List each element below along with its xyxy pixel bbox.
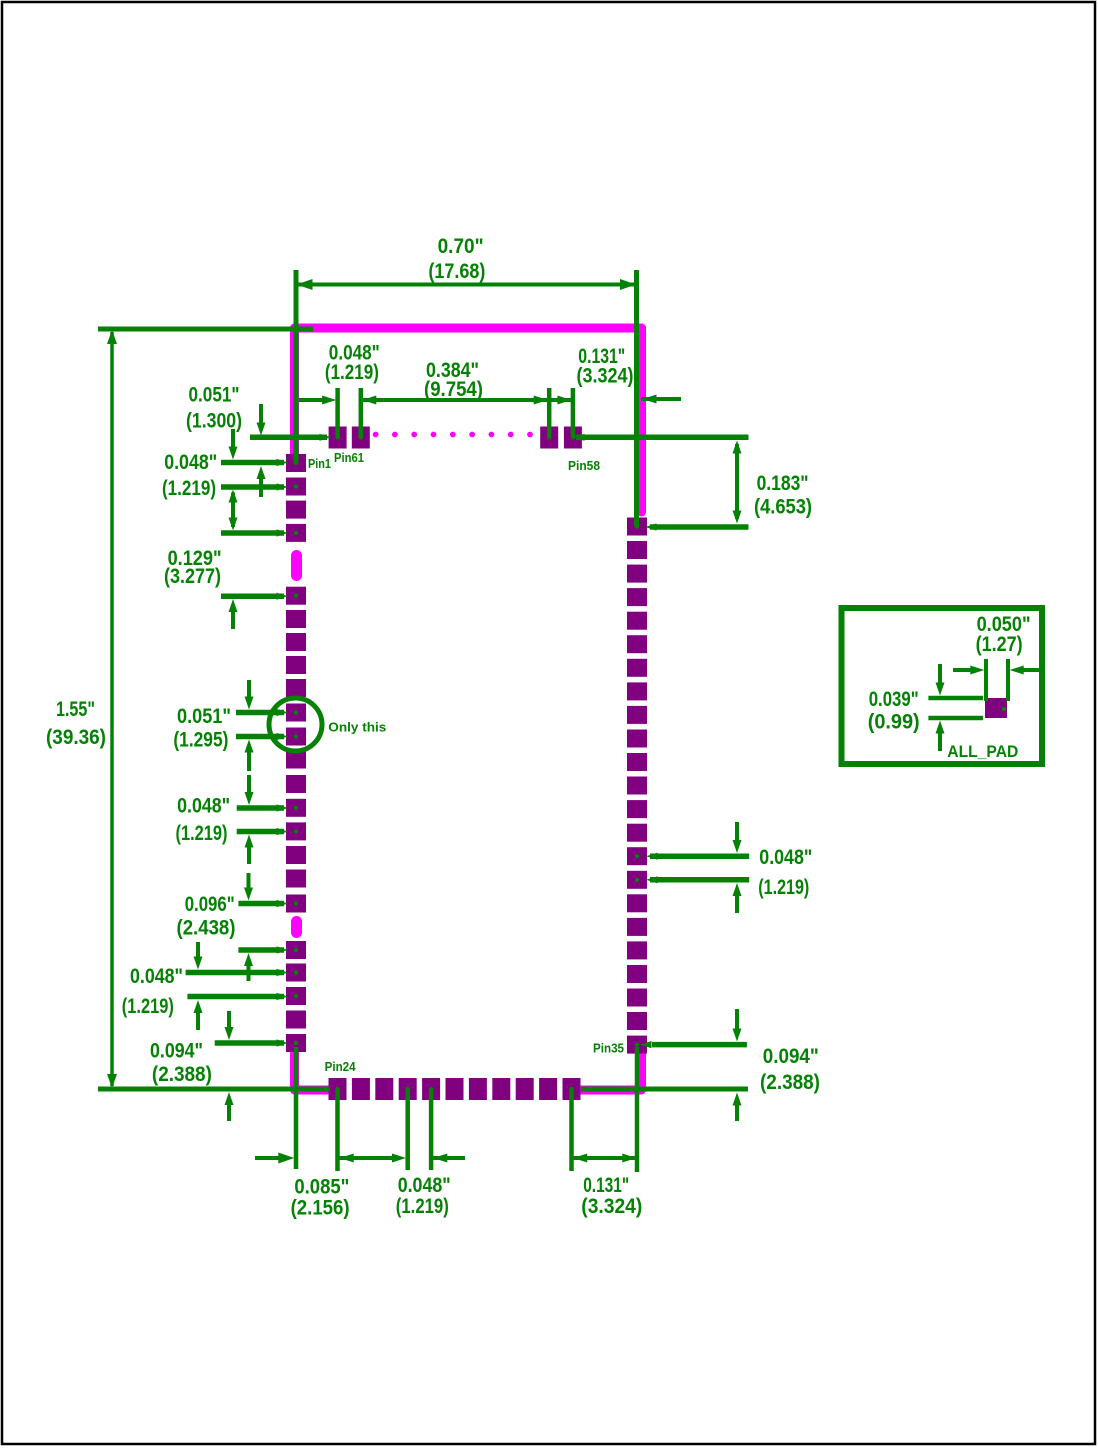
svg-text:(1.219): (1.219) bbox=[122, 995, 174, 1018]
svg-text:0.048": 0.048" bbox=[164, 451, 217, 474]
svg-text:(1.219): (1.219) bbox=[396, 1195, 449, 1218]
svg-text:0.094": 0.094" bbox=[763, 1045, 819, 1068]
svg-text:(3.324): (3.324) bbox=[577, 365, 634, 388]
svg-text:1.55": 1.55" bbox=[56, 698, 95, 721]
svg-text:0.131": 0.131" bbox=[583, 1174, 629, 1197]
svg-text:0.048": 0.048" bbox=[398, 1174, 451, 1197]
svg-text:(2.438): (2.438) bbox=[177, 917, 236, 940]
svg-text:Pin1: Pin1 bbox=[308, 456, 331, 471]
svg-text:(1.27): (1.27) bbox=[976, 633, 1023, 656]
svg-text:0.051": 0.051" bbox=[189, 383, 240, 406]
svg-text:(39.36): (39.36) bbox=[46, 726, 106, 749]
svg-text:Pin58: Pin58 bbox=[568, 458, 600, 473]
svg-text:0.085": 0.085" bbox=[294, 1176, 349, 1199]
svg-text:(2.156): (2.156) bbox=[291, 1197, 350, 1220]
svg-text:0.096": 0.096" bbox=[185, 893, 235, 916]
svg-text:0.183": 0.183" bbox=[757, 472, 809, 495]
svg-text:Pin35: Pin35 bbox=[593, 1040, 624, 1055]
svg-text:(2.388): (2.388) bbox=[152, 1063, 212, 1086]
svg-text:ALL_PAD: ALL_PAD bbox=[947, 742, 1018, 761]
svg-text:Pin24: Pin24 bbox=[325, 1059, 357, 1074]
svg-text:(1.219): (1.219) bbox=[758, 876, 809, 899]
svg-text:0.039": 0.039" bbox=[869, 688, 919, 711]
svg-text:(9.754): (9.754) bbox=[424, 378, 483, 401]
svg-text:(0.99): (0.99) bbox=[868, 710, 920, 733]
svg-text:0.048": 0.048" bbox=[177, 795, 230, 818]
svg-text:(2.388): (2.388) bbox=[760, 1071, 820, 1094]
svg-text:0.048": 0.048" bbox=[130, 965, 183, 988]
svg-text:0.048": 0.048" bbox=[759, 846, 812, 869]
svg-text:(1.295): (1.295) bbox=[173, 729, 228, 752]
svg-text:(3.324): (3.324) bbox=[581, 1195, 642, 1218]
svg-text:0.70": 0.70" bbox=[438, 235, 484, 258]
svg-text:(3.277): (3.277) bbox=[164, 565, 221, 588]
svg-text:Only this: Only this bbox=[328, 719, 386, 734]
svg-text:(4.653): (4.653) bbox=[754, 496, 812, 519]
svg-text:(1.219): (1.219) bbox=[176, 822, 228, 845]
svg-text:(1.300): (1.300) bbox=[186, 410, 242, 433]
svg-text:Pin61: Pin61 bbox=[334, 450, 364, 465]
svg-text:(17.68): (17.68) bbox=[428, 260, 485, 283]
svg-text:0.094": 0.094" bbox=[150, 1040, 203, 1063]
svg-text:(1.219): (1.219) bbox=[162, 477, 216, 500]
svg-text:(1.219): (1.219) bbox=[325, 361, 379, 384]
svg-text:0.051": 0.051" bbox=[177, 705, 231, 728]
